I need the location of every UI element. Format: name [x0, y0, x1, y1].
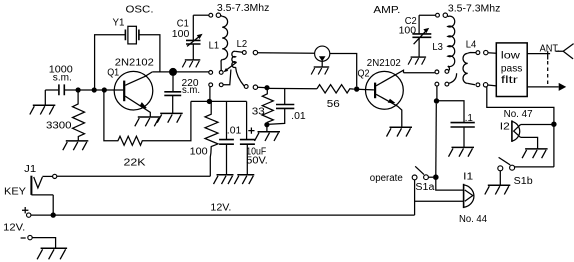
wire (33 node to 56) [267, 87, 317, 89]
pin (L2 bot jack) [253, 85, 257, 89]
svg-text:s.m.: s.m. [53, 73, 72, 84]
ground (-12V) [37, 248, 67, 259]
wire (key line) [57, 175, 211, 177]
svg-text:L3: L3 [432, 42, 443, 53]
capacitor 1000 s.m. [49, 64, 73, 95]
wire (row2 down to node) [209, 87, 211, 102]
wire (L2 top to jack) [258, 52, 315, 55]
ground (C1) [182, 60, 200, 68]
svg-text:100: 100 [399, 25, 417, 36]
ground (input cap 1000) [30, 90, 56, 115]
ground (C2) [408, 57, 426, 65]
capacitor 10uF 50V [240, 101, 268, 174]
svg-text:L1: L1 [209, 41, 220, 52]
ground (Q2 emitter) [387, 127, 413, 136]
ground (220 cap) [157, 113, 183, 122]
svg-text:Q2: Q2 [358, 68, 370, 79]
node (33 top junction) [264, 85, 269, 90]
L3 lower tap hook [449, 73, 457, 83]
pin (L4 top jack) [484, 50, 488, 54]
svg-text:12V.: 12V. [210, 202, 231, 213]
node (33 bottom junction) [264, 122, 269, 127]
svg-text:2N2102: 2N2102 [115, 58, 154, 69]
node (crystal junction) [92, 87, 97, 92]
pin (L4 bot jack) [483, 83, 487, 87]
svg-text:33: 33 [252, 107, 266, 118]
inductor L4 [463, 40, 477, 85]
svg-text:2N2102: 2N2102 [367, 58, 401, 69]
capacitor .01 (Q2 base) [267, 89, 306, 125]
svg-text:L4: L4 [466, 40, 477, 51]
capacitor 220 s.m. [164, 72, 200, 114]
svg-text:12V.: 12V. [3, 222, 25, 233]
svg-text:No. 44: No. 44 [459, 214, 487, 225]
wire (L2 out to 33) [258, 86, 267, 88]
wire (S1a to 12V riser) [414, 180, 416, 215]
pin (L2 top jack) [253, 50, 257, 54]
node (S1a junction) [433, 174, 439, 180]
terminal -12V [21, 235, 56, 248]
ground (10uF) [234, 175, 254, 184]
crystal Y1 [113, 17, 139, 44]
wire (12V line) [31, 214, 415, 216]
resistor 22K [104, 90, 191, 169]
svg-text:3.5-7.3Mhz: 3.5-7.3Mhz [448, 3, 501, 14]
wire (I2 node down to S1b) [553, 124, 555, 167]
wire (filter to ANT) [527, 53, 550, 55]
coax (dashed) [547, 61, 549, 84]
svg-text:C1: C1 [177, 18, 189, 29]
capacitor .1 [437, 101, 475, 148]
wire (I2 top lead) [521, 124, 554, 126]
svg-text:OSC.: OSC. [126, 5, 154, 16]
wire (filter to rcvr) [527, 86, 559, 88]
wire (L4 to filter bottom) [488, 84, 497, 87]
svg-text:low: low [501, 51, 521, 62]
resistor 56 [317, 85, 354, 111]
svg-text:AMP.: AMP. [373, 5, 400, 16]
phono jack J2 [315, 46, 330, 67]
pin row1 chassis [209, 71, 213, 75]
svg-text:3.5-7.3Mhz: 3.5-7.3Mhz [217, 3, 270, 14]
wire (input to cap) [45, 89, 58, 91]
pin (L4 top plug) [476, 51, 480, 55]
pin (L1 top jack) [209, 13, 213, 17]
transistor Q2 2N2102 [358, 58, 404, 127]
pin row2 coil [219, 83, 223, 87]
wire (collector node) [152, 71, 209, 73]
node (22K junction) [102, 87, 107, 92]
pin row1 coil [219, 71, 223, 75]
svg-text:100: 100 [190, 146, 208, 157]
resistor 100 (Q1) [190, 101, 218, 176]
svg-text:No. 47: No. 47 [504, 109, 533, 120]
svg-text:Q1: Q1 [107, 67, 119, 78]
pin row2R chassis [435, 82, 439, 86]
pin row2 chassis [209, 83, 213, 87]
ground (3300) [63, 141, 89, 150]
wire (base rail) [64, 89, 123, 91]
switch S1b [498, 157, 554, 187]
wire (L3/L4 DC feed down) [436, 86, 438, 101]
pin row1R chassis [435, 70, 439, 74]
pin (L1 top plug) [216, 13, 220, 17]
lamp I2 No. 47 [500, 109, 533, 142]
wire (I1 top lead) [436, 177, 463, 190]
wire (C1 to L1 top) [193, 14, 209, 16]
svg-text:.01: .01 [291, 111, 306, 122]
wire (crystal right leg) [139, 35, 160, 72]
pin (L2 bot plug) [244, 85, 248, 89]
svg-text:100: 100 [172, 29, 190, 40]
node (Q2 base junction) [354, 86, 359, 91]
svg-text:I2: I2 [500, 121, 511, 132]
lamp I1 No. 44 [459, 171, 487, 224]
low pass filter box [496, 43, 527, 97]
node (keyed node junction) [207, 99, 212, 104]
ground (S1b) [485, 171, 511, 195]
svg-text:22K: 22K [124, 158, 146, 169]
pin (L2 top plug) [242, 51, 246, 55]
svg-text:operate: operate [370, 173, 403, 184]
inductor L2 [232, 39, 248, 86]
ground (.1 cap) [449, 147, 475, 156]
wire (row2 to L2 bottom) [223, 70, 231, 85]
capacitor C1 100 (trimmer) [172, 15, 203, 60]
node (3300 junction) [76, 87, 81, 92]
wire (base lead Q2) [357, 88, 374, 91]
svg-text:3300: 3300 [46, 120, 72, 131]
node (collector junction) [169, 68, 177, 76]
wire (lamp feed down) [487, 87, 554, 124]
ground (.01 Q1) [214, 175, 234, 184]
pin (L3 top plug) [443, 13, 447, 17]
wire (Q2 collector) [404, 72, 435, 74]
inductor L3 [432, 15, 454, 70]
ground (Q1 emitter) [135, 117, 161, 126]
resistor 3300 [46, 90, 85, 141]
svg-text:fltr: fltr [501, 75, 519, 86]
wire (jack to Q2 base) [330, 54, 357, 87]
pin (L4 bot plug) [476, 83, 480, 87]
svg-text:50V.: 50V. [246, 156, 267, 167]
pin row1R coil [445, 70, 449, 74]
ground (I2) [522, 149, 548, 158]
svg-text:pass: pass [501, 64, 523, 75]
svg-text:.01: .01 [227, 125, 242, 136]
transistor Q1 2N2102 [107, 58, 154, 117]
node (J1 sleeve junction) [51, 212, 56, 217]
terminal +12V [3, 207, 31, 233]
capacitor .01 (Q1) [219, 101, 242, 174]
svg-text:56: 56 [327, 99, 341, 110]
arrow (to receiver) [559, 83, 567, 91]
tap arrow (L1) [224, 62, 237, 72]
svg-text:ANT.: ANT. [540, 43, 560, 54]
node (DC feed junction) [434, 98, 439, 103]
wire (keyed node) [191, 100, 247, 102]
node (I2 junction) [551, 122, 556, 127]
jack J1 KEY [4, 164, 57, 215]
svg-text:.1: .1 [465, 113, 473, 124]
ground (33) [255, 125, 281, 141]
wire (C2 to L3 top) [419, 14, 435, 16]
svg-text:J1: J1 [24, 164, 36, 175]
svg-text:I1: I1 [463, 171, 474, 182]
pin (L3 top jack) [436, 13, 440, 17]
svg-text:L2: L2 [237, 39, 248, 50]
wire (I2 bottom lead to gnd) [521, 137, 538, 149]
resistor 33 [252, 88, 273, 125]
capacitor C2 100 (trimmer) [399, 15, 432, 57]
switch S1a operate [370, 166, 435, 193]
svg-text:S1a: S1a [415, 182, 434, 193]
inductor L1 [209, 15, 228, 70]
wire (S1a node vertical) [435, 104, 438, 175]
antenna ANT. [540, 43, 574, 59]
svg-text:KEY: KEY [4, 186, 26, 197]
wire (I1 bottom lead) [415, 200, 463, 202]
wire (crystal left leg) [95, 35, 126, 90]
ground (phono jack) [311, 67, 329, 75]
wire (L4 to filter top) [488, 52, 496, 55]
pin row2R coil [445, 82, 449, 86]
svg-text:s.m.: s.m. [182, 85, 200, 96]
svg-text:Y1: Y1 [113, 17, 125, 28]
svg-text:S1b: S1b [514, 176, 533, 187]
